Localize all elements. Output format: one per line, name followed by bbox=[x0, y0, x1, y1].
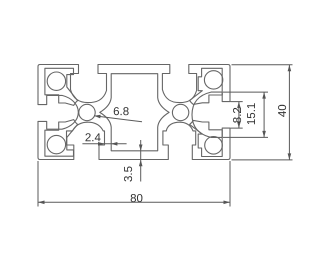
svg-text:3.5: 3.5 bbox=[123, 166, 135, 182]
svg-text:40: 40 bbox=[277, 104, 289, 117]
dim 2.4 line bbox=[82, 143, 126, 145]
profile outer boundary with T-slot mouths bbox=[38, 65, 230, 160]
corner pocket top-right bbox=[190, 68, 223, 104]
corner hole top-left bbox=[47, 72, 65, 90]
svg-text:80: 80 bbox=[130, 193, 143, 205]
dim 8.2 extension lines bbox=[231, 102, 243, 129]
svg-text:8.2: 8.2 bbox=[232, 107, 244, 123]
dim 15.1 extension lines bbox=[223, 92, 268, 137]
central cavity bbox=[100, 74, 169, 151]
dim 8.2 line bbox=[238, 102, 240, 129]
center hole left (6.8) bbox=[79, 104, 95, 120]
svg-text:2.4: 2.4 bbox=[85, 132, 102, 144]
corner pocket top-left bbox=[45, 68, 78, 105]
svg-text:6.8: 6.8 bbox=[113, 106, 129, 118]
dim 3.5 lines bbox=[140, 140, 142, 182]
dim 15.1 line bbox=[263, 92, 265, 137]
corner pocket bottom-right bbox=[190, 120, 223, 156]
dim 80 extension lines bbox=[38, 161, 230, 207]
corner hole bottom-left bbox=[47, 135, 65, 153]
corner hole bottom-right bbox=[205, 137, 223, 155]
svg-text:15.1: 15.1 bbox=[246, 103, 258, 125]
leader 6.8 line bbox=[94, 116, 142, 122]
corner hole top-right bbox=[204, 71, 222, 89]
corner pocket bottom-left bbox=[45, 120, 78, 157]
dim 80 line bbox=[38, 201, 230, 203]
dim 40 extension lines bbox=[232, 65, 293, 160]
center hole right bbox=[172, 104, 188, 120]
dim 40 line bbox=[288, 65, 290, 160]
